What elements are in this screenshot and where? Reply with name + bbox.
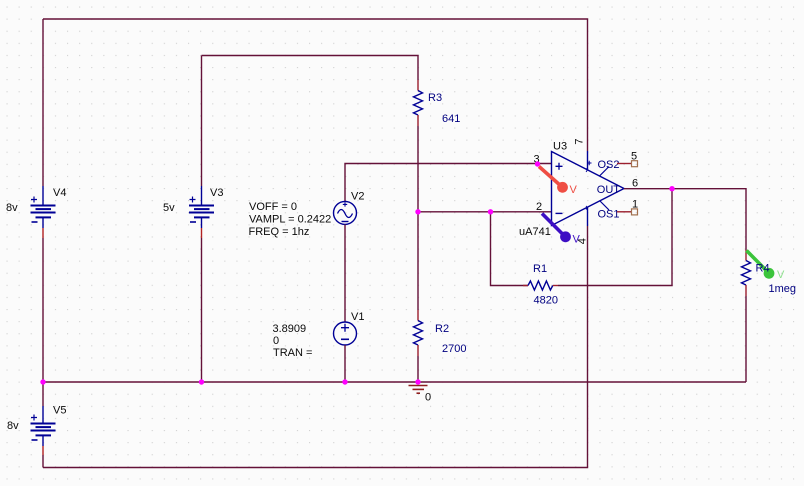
svg-text:OS2: OS2 (598, 159, 620, 171)
V+ tick (586, 161, 592, 172)
battery V5 (31, 406, 56, 455)
junction node: V4 / bus (40, 379, 45, 384)
V2 parameter text (249, 201, 332, 238)
junction node: feedback / pin2 wire (488, 209, 493, 214)
svg-text:5v: 5v (163, 202, 175, 214)
source V1 (DC) (334, 322, 357, 345)
wire: bottom bus (43, 381, 746, 383)
wire: V1 bottom to ground bus (344, 345, 346, 382)
svg-text:4820: 4820 (534, 295, 558, 307)
wire: OUT net to R4 top (624, 189, 746, 250)
source V2 (sine) (334, 201, 357, 224)
wire: feedback right riser to OUT (558, 189, 672, 286)
wire: pin 3 net (V2 top to op-amp non-inverting input) (345, 164, 552, 202)
svg-text:2700: 2700 (442, 343, 466, 355)
wire: feedback left drop (491, 212, 529, 286)
junction node: probe attach pin3 (535, 161, 540, 166)
wire: V2 bottom to V1 top (344, 224, 346, 322)
pin 4 stub (587, 207, 589, 227)
wire: OS2 pin lead (617, 163, 632, 165)
wire: V4 column upper (42, 19, 44, 186)
voltage marker (green) on R4 (747, 251, 786, 282)
junction node: OUT / feedback (669, 186, 674, 191)
svg-text:OS1: OS1 (598, 209, 620, 221)
svg-text:V2: V2 (351, 191, 364, 203)
wire: V4 column lower (42, 238, 44, 382)
svg-text:R3: R3 (428, 92, 442, 104)
junction node: V3 / bus (199, 379, 204, 384)
svg-text:8v: 8v (6, 202, 18, 214)
svg-text:3.8909: 3.8909 (273, 323, 307, 335)
terminal square pin 5 (632, 161, 638, 167)
svg-text:V: V (573, 234, 581, 246)
wire: V5 top (42, 382, 44, 406)
svg-text:TRAN =: TRAN = (273, 347, 312, 359)
V1 parameter text (273, 323, 313, 359)
svg-text:V5: V5 (53, 405, 66, 417)
svg-text:8v: 8v (7, 420, 19, 432)
minus mark (pin 2) (556, 212, 563, 214)
svg-text:V1: V1 (351, 311, 364, 323)
op-amp U3 (552, 151, 625, 226)
svg-text:FREQ = 1hz: FREQ = 1hz (249, 226, 310, 238)
wire: V5 bottom (42, 455, 44, 468)
wire: OS1 pin lead (617, 211, 632, 213)
svg-text:V3: V3 (210, 187, 223, 199)
svg-text:6: 6 (632, 177, 638, 189)
svg-text:uA741: uA741 (519, 226, 551, 238)
wire: pin2 node down to R2 (417, 212, 419, 310)
junction node: V1 / bus (342, 379, 347, 384)
wire: V3 column lower (201, 238, 203, 382)
battery V3 (189, 186, 214, 238)
OS2 stub (600, 167, 610, 177)
svg-text:V: V (570, 184, 578, 196)
svg-text:VOFF = 0: VOFF = 0 (249, 201, 297, 213)
junction node: ground / bus (415, 379, 420, 384)
svg-text:R2: R2 (435, 323, 449, 335)
wire: R4 bottom to ground bus (745, 296, 747, 382)
resistor R4 (742, 250, 751, 296)
voltage marker (red) on pin 3 (539, 167, 578, 197)
OS1 stub (600, 201, 610, 211)
voltage marker (purple) on pin 2 (542, 214, 581, 246)
wire: top bus from V4 plus to op-amp pin 7 (43, 19, 588, 151)
resistor R1 (523, 281, 558, 290)
svg-text:U3: U3 (553, 141, 567, 153)
svg-text:641: 641 (442, 113, 460, 125)
pin 7 stub (587, 151, 589, 170)
wire: V3 top bus to R3 column (202, 56, 419, 81)
svg-text:7: 7 (573, 138, 585, 144)
svg-text:V: V (777, 269, 785, 281)
svg-text:R4: R4 (756, 263, 770, 275)
wire: R2 bottom to ground bus (417, 356, 419, 382)
wire: V3 column upper (201, 56, 203, 187)
plus mark (pin 3) (556, 163, 563, 170)
svg-text:0: 0 (425, 392, 431, 404)
wire: op-amp pin 4 to bottom rail (43, 226, 588, 468)
svg-text:0: 0 (273, 335, 279, 347)
battery V4 (31, 186, 56, 238)
svg-text:2: 2 (536, 201, 542, 213)
junction node: R3 column / pin2 wire (415, 209, 420, 214)
ground 0 (409, 386, 428, 394)
terminal square pin 1 (632, 209, 638, 215)
wire: R3 bottom to pin2 node (417, 126, 419, 212)
wire: pin 2 net (inverting input) (418, 211, 552, 213)
resistor R2 (414, 310, 423, 356)
svg-text:VAMPL = 0.2422: VAMPL = 0.2422 (249, 214, 331, 226)
resistor R3 (414, 80, 423, 126)
svg-text:R1: R1 (533, 263, 547, 275)
svg-text:V4: V4 (53, 187, 66, 199)
svg-text:1meg: 1meg (769, 283, 797, 295)
svg-text:OUT: OUT (597, 184, 621, 196)
V- tick (586, 206, 587, 210)
